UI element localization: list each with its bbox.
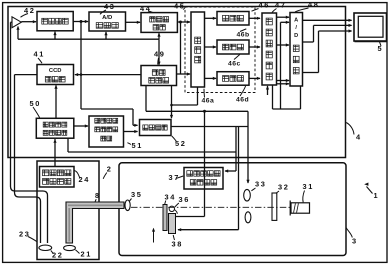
connector 22: [39, 245, 52, 250]
wire dimming bus: [171, 126, 248, 128]
memory 46d: [217, 72, 249, 86]
svg-text:31: 31: [303, 182, 314, 191]
svg-text:8: 8: [95, 193, 101, 200]
wire 42 to 43 with junction: [73, 21, 88, 23]
svg-text:51: 51: [132, 141, 143, 150]
wire 51 to 52: [124, 131, 138, 133]
dashed memory unit box 46: [185, 7, 255, 93]
solenoid 38: [169, 214, 176, 234]
selector 46a: [191, 12, 205, 87]
box 41 CCD driver: [37, 65, 74, 85]
mirror plate 34: [163, 205, 167, 231]
svg-text:49: 49: [154, 50, 165, 59]
svg-text:2: 2: [107, 165, 113, 174]
box 43 A/D converter: [89, 12, 126, 31]
wire selector bottom to dimming circuit: [197, 87, 199, 105]
svg-text:21: 21: [81, 250, 92, 259]
svg-text:CCD: CCD: [49, 68, 62, 74]
monitor 5: [354, 13, 387, 41]
wire 49 to dimming circuit top: [171, 86, 173, 119]
box 52 dimming circuit: [140, 120, 172, 136]
label 1 system arrow: [367, 187, 373, 194]
mirror motion arrow: [153, 229, 155, 243]
wire bus into 43: [105, 32, 107, 39]
wire 49 to selector: [180, 22, 182, 74]
svg-text:34: 34: [165, 193, 176, 202]
svg-text:41: 41: [34, 50, 45, 59]
svg-text:50: 50: [30, 99, 41, 108]
box 50 observation mode switching circuit: [36, 118, 74, 138]
light guide 8: [66, 202, 124, 243]
actuator link 36: [169, 206, 174, 211]
box 49 timing generator: [141, 66, 177, 86]
svg-text:46c: 46c: [228, 61, 241, 68]
box 42 process circuit: [37, 12, 73, 31]
svg-text:3: 3: [352, 237, 358, 246]
timing bus wire: [18, 38, 159, 40]
wire 49 to bus: [158, 39, 160, 65]
wires selector to memories: [205, 17, 217, 19]
svg-text:5: 5: [378, 44, 384, 53]
svg-text:22: 22: [52, 251, 63, 260]
svg-text:D: D: [294, 33, 298, 39]
svg-text:35: 35: [131, 190, 142, 199]
wire to dimming circuit upper input: [81, 108, 133, 110]
svg-text:24: 24: [79, 175, 90, 184]
wire mode switch 24 up to 50: [54, 139, 56, 167]
label 4: [346, 123, 354, 135]
endoscope box 2: [37, 161, 99, 260]
box 51 dimming control parameter switching circuit: [89, 116, 124, 147]
optical axis: [131, 206, 290, 208]
svg-text:38: 38: [172, 240, 183, 249]
wire down to solenoid 38: [238, 127, 240, 230]
svg-text:47: 47: [275, 1, 286, 10]
svg-text:33: 33: [255, 180, 266, 189]
wire 50 to 51: [74, 125, 88, 127]
signal cable inner wire: [15, 75, 41, 243]
box 37 rotary filter control circuit: [184, 168, 223, 190]
wire CCD driver to scope: [15, 74, 38, 76]
svg-text:A: A: [294, 18, 298, 24]
svg-text:36: 36: [179, 195, 190, 204]
amplifier triangle: [12, 17, 21, 28]
svg-text:46a: 46a: [202, 98, 215, 105]
wire bus to amplifier: [17, 27, 19, 40]
wire into rotary filter control 37: [235, 127, 237, 172]
wire 43 to 44: [126, 21, 141, 23]
box 44 white balance circuit: [141, 13, 177, 33]
wire 50 down to filter control line: [67, 138, 69, 152]
svg-text:42: 42: [24, 6, 35, 15]
wires under 47: [267, 86, 269, 95]
wires memories to image processing circuit: [249, 17, 260, 19]
svg-text:46: 46: [259, 1, 270, 10]
label 3: [346, 228, 352, 238]
svg-text:4: 4: [356, 133, 362, 142]
light source unit box 3: [119, 163, 346, 256]
wire amplifier to box 42: [21, 21, 36, 23]
wires 48 to monitor: [303, 19, 352, 21]
wire bus into 44: [158, 33, 160, 39]
svg-text:46d: 46d: [236, 97, 249, 104]
box 47 image processing circuit: [262, 13, 277, 85]
lamp 31: [291, 203, 310, 213]
memory 46b: [217, 12, 249, 26]
svg-text:48: 48: [308, 0, 319, 9]
signal cable outer wire: [11, 22, 48, 243]
box 24 observation mode switching switch: [40, 167, 75, 188]
lens 32: [272, 193, 277, 220]
connector 21: [64, 245, 76, 250]
wire down to mirror actuator: [204, 111, 206, 216]
svg-text:1: 1: [374, 191, 380, 200]
wire 44 to selector with junction: [177, 21, 190, 23]
svg-text:52: 52: [175, 139, 186, 148]
wire junction down to CCD driver and 49: [80, 22, 82, 110]
wires 47 to 48: [277, 16, 290, 18]
memory 46c: [217, 40, 249, 54]
condenser lens 35: [125, 200, 130, 211]
wire bus into 42: [54, 32, 56, 40]
wire timing generator down: [145, 86, 147, 112]
svg-text:A/D: A/D: [102, 15, 112, 21]
processor unit box 4: [8, 7, 346, 158]
box 48 D/A converter: [290, 13, 303, 87]
svg-text:46b: 46b: [237, 32, 250, 39]
wire 50 up to CCD driver: [55, 85, 57, 118]
label 5: [380, 42, 382, 46]
junction node: [203, 110, 206, 113]
rotary filter 33: [244, 189, 251, 201]
wire CCD signal into amplifier: [11, 21, 13, 23]
wire feedback loop into 48: [281, 21, 290, 23]
wire down to filter 33: [247, 111, 249, 183]
svg-text:32: 32: [278, 183, 289, 192]
